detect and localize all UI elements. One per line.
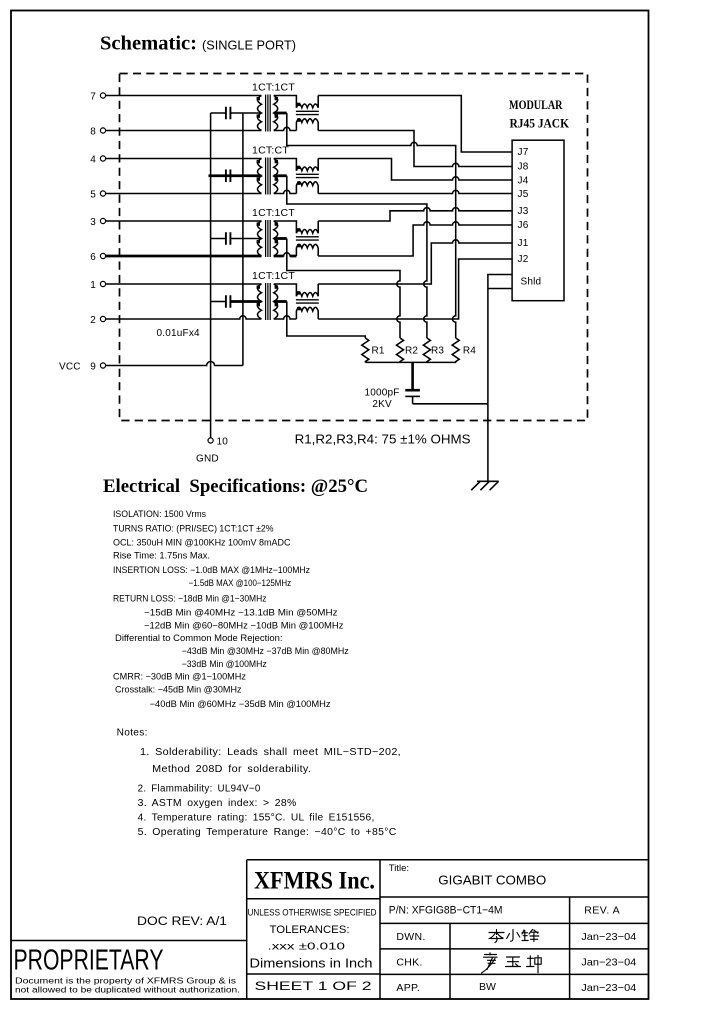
svg-text:−40dB Min @60MHz −35dB Min @10: −40dB Min @60MHz −35dB Min @100MHz	[150, 699, 332, 709]
wire T3 choke top to J3 (hops over CT2,CT1 drops)	[318, 208, 512, 221]
resistor R4	[452, 338, 459, 362]
capacitor C5 1000pF 2KV	[411, 362, 414, 389]
svg-text:PROPRIETARY: PROPRIETARY	[14, 945, 164, 977]
wire CT3 to R2 (hops over T4 top and bottom wires)	[287, 239, 400, 339]
signature CHK (Chinese handwriting)	[482, 953, 542, 973]
svg-text:R1,R2,R3,R4: 75 ±1% OHMS: R1,R2,R3,R4: 75 ±1% OHMS	[295, 432, 471, 447]
svg-text:Rise Time: 1.75ns Max.: Rise Time: 1.75ns Max.	[113, 551, 210, 561]
svg-text:J7: J7	[518, 147, 529, 158]
node CT1: secondary center-tap stub T1 (bold)	[274, 112, 287, 115]
svg-text:CHK.: CHK.	[396, 957, 422, 969]
svg-text:REV. A: REV. A	[584, 905, 620, 917]
resistor R1	[362, 338, 369, 362]
svg-text:1CT:1CT: 1CT:1CT	[252, 83, 295, 94]
capacitor C4 (bold right lead)	[211, 301, 226, 303]
signature DWN (Chinese handwriting)	[489, 930, 539, 943]
svg-text:Electrical Specifications: @2: Electrical Specifications: @25°C	[103, 477, 368, 497]
capacitor C1	[211, 112, 262, 114]
svg-text:Jan−23−04: Jan−23−04	[581, 982, 636, 994]
svg-text:10: 10	[217, 437, 229, 448]
wire pin6 to T3 primary bottom (bold)	[106, 255, 262, 258]
svg-text:7: 7	[90, 91, 96, 102]
svg-text:−15dB Min @40MHz −13.1dB Min @: −15dB Min @40MHz −13.1dB Min @50MHz	[144, 608, 338, 618]
bold overlay T3 secondary bottom lead	[274, 255, 297, 258]
svg-text:0.01uFx4: 0.01uFx4	[157, 328, 201, 339]
svg-text:2. Flammability: UL94V−0: 2. Flammability: UL94V−0	[138, 784, 261, 795]
svg-text:RJ45 JACK: RJ45 JACK	[510, 117, 570, 131]
svg-text:1CT:1CT: 1CT:1CT	[252, 271, 295, 282]
resistor R2	[397, 338, 404, 362]
node CT2: secondary center-tap stub T2 (bold)	[274, 174, 287, 177]
svg-text:R4: R4	[463, 346, 476, 357]
title block frame lines	[247, 860, 649, 1000]
svg-text:UNLESS OTHERWISE SPECIFIED: UNLESS OTHERWISE SPECIFIED	[248, 907, 377, 918]
transformer T2	[257, 158, 319, 195]
svg-text:J2: J2	[518, 254, 529, 265]
wire resistor common bus	[365, 361, 456, 363]
svg-text:Differential to Common Mode Re: Differential to Common Mode Rejection:	[115, 633, 283, 643]
svg-text:1000pF: 1000pF	[364, 388, 399, 399]
svg-text:CMRR: −30dB Min @1−100MHz: CMRR: −30dB Min @1−100MHz	[113, 672, 247, 682]
transformer T1	[257, 95, 319, 132]
svg-text:(SINGLE PORT): (SINGLE PORT)	[202, 39, 296, 53]
wire pin4 to T2 primary top	[106, 158, 262, 160]
svg-text:R1: R1	[372, 346, 385, 357]
svg-text:J3: J3	[518, 206, 529, 217]
svg-text:Shld: Shld	[521, 277, 542, 288]
transformer T3	[257, 220, 319, 257]
wire shield to chassis ground	[487, 404, 489, 482]
svg-text:OCL: 350uH MIN @100KHz 100mV 8: OCL: 350uH MIN @100KHz 100mV 8mADC	[113, 538, 291, 548]
svg-text:J8: J8	[518, 162, 529, 173]
svg-text:−1.5dB MAX @100−125MHz: −1.5dB MAX @100−125MHz	[189, 578, 292, 588]
svg-text:SHEET 1 OF 2: SHEET 1 OF 2	[255, 979, 372, 993]
svg-text:2: 2	[90, 315, 96, 326]
wire CT4 to R1	[287, 302, 366, 339]
schematic dashed boundary box	[120, 74, 588, 421]
svg-text:1CT:CT: 1CT:CT	[252, 146, 289, 157]
wire T3 choke bottom to J6 (hops over CT2,CT1 drops)	[318, 222, 512, 256]
svg-text:Method 208D for solderability.: Method 208D for solderability.	[152, 764, 311, 775]
svg-text:8: 8	[90, 126, 96, 137]
svg-text:ISOLATION: 1500 Vrms: ISOLATION: 1500 Vrms	[113, 509, 206, 519]
svg-text:Notes:: Notes:	[117, 728, 148, 739]
svg-text:6: 6	[90, 252, 96, 263]
svg-text:RETURN LOSS: −18dB Min @1−30MH: RETURN LOSS: −18dB Min @1−30MHz	[113, 594, 267, 604]
wire C5 to shield node	[413, 403, 488, 405]
wire T4 choke top to J1 (hop over CT1 drop)	[318, 240, 512, 284]
chassis ground symbol	[471, 481, 499, 490]
svg-text:MODULAR: MODULAR	[509, 98, 563, 112]
svg-text:9: 9	[90, 362, 96, 373]
svg-text:P/N: XFGIG8B−CT1−4M: P/N: XFGIG8B−CT1−4M	[389, 905, 503, 917]
svg-text:−33dB Min @100MHz: −33dB Min @100MHz	[182, 659, 267, 669]
wire T2 choke top to J4 (hop over CT1 drop)	[318, 159, 512, 181]
wire pin5 to T2 primary bottom	[106, 193, 262, 195]
svg-text:DWN.: DWN.	[396, 931, 425, 943]
wire T1 choke top to J7	[318, 96, 512, 153]
node CT4: secondary center-tap stub T4 (bold)	[274, 300, 287, 303]
svg-text:TURNS RATIO: (PRI/SEC) 1CT:1CT: TURNS RATIO: (PRI/SEC) 1CT:1CT ±2%	[113, 524, 274, 534]
svg-text:3. ASTM oxygen index: > 28%: 3. ASTM oxygen index: > 28%	[138, 798, 297, 809]
svg-text:4. Temperature rating: 155°C.: 4. Temperature rating: 155°C. UL file E1…	[138, 813, 375, 824]
svg-text:Crosstalk: −45dB Min @30MHz: Crosstalk: −45dB Min @30MHz	[115, 685, 242, 695]
wire T4 choke bottom to J2	[318, 259, 512, 319]
svg-text:XFMRS Inc.: XFMRS Inc.	[254, 866, 375, 895]
svg-text:BW: BW	[479, 981, 496, 993]
wire pin8 to T1 primary bottom	[106, 130, 262, 132]
svg-text:5. Operating Temperature Range: 5. Operating Temperature Range: −40°C to…	[138, 827, 397, 838]
svg-text:INSERTION LOSS: −1.0dB MAX @1M: INSERTION LOSS: −1.0dB MAX @1MHz−100MHz	[113, 565, 310, 575]
svg-text:3: 3	[90, 217, 96, 228]
svg-text:.xxx ±0.010: .xxx ±0.010	[268, 941, 346, 953]
svg-text:Jan−23−04: Jan−23−04	[581, 931, 636, 943]
wire pin7 to T1 primary top	[106, 95, 262, 97]
node CT3: secondary center-tap stub T3 (bold)	[274, 237, 287, 240]
wire T2 choke bottom to J5 (hop over CT1 drop)	[318, 190, 512, 193]
svg-text:Document is the property of XF: Document is the property of XFMRS Group …	[15, 977, 236, 986]
pin 10 GND	[208, 438, 213, 443]
vcc bus (right vertical)	[242, 113, 244, 366]
svg-text:J5: J5	[518, 189, 529, 200]
wire pin1 to T4 primary top	[106, 283, 262, 285]
svg-text:Dimensions in Inch: Dimensions in Inch	[250, 956, 373, 970]
svg-text:5: 5	[90, 189, 96, 200]
svg-text:not allowed to be duplicated w: not allowed to be duplicated without aut…	[15, 986, 240, 995]
svg-text:J1: J1	[518, 238, 529, 249]
svg-text:R2: R2	[405, 346, 418, 357]
capacitor C3	[211, 238, 262, 240]
wire CT1 to R4 (hop over J8 drop, hop over T4 bottom wire)	[287, 113, 456, 338]
svg-text:1: 1	[90, 280, 96, 291]
resistor R3	[423, 338, 430, 362]
capacitor C2 (bold lead)	[209, 174, 262, 177]
svg-text:1CT:1CT: 1CT:1CT	[252, 208, 295, 219]
gnd bus (left vertical)	[210, 113, 212, 438]
svg-text:4: 4	[90, 154, 96, 165]
wire pin3 to T3 primary top	[106, 220, 262, 222]
svg-text:−43dB Min @30MHz −37dB Min @80: −43dB Min @30MHz −37dB Min @80MHz	[182, 646, 349, 656]
svg-text:GIGABIT COMBO: GIGABIT COMBO	[438, 874, 546, 888]
svg-text:2KV: 2KV	[372, 399, 392, 410]
svg-text:J4: J4	[518, 175, 529, 186]
wire CT2 to R3 (hops over T4 top and bottom wires)	[287, 176, 427, 338]
svg-text:DOC REV: A/1: DOC REV: A/1	[137, 916, 227, 928]
transformer T4	[257, 283, 319, 320]
svg-text:−12dB Min @60−80MHz −10dB Min: −12dB Min @60−80MHz −10dB Min @100MHz	[144, 621, 344, 631]
wire VCC pin9 to right bus, hop over gnd bus	[106, 362, 243, 366]
wire pin2 to T4 primary bottom	[106, 316, 262, 319]
svg-text:GND: GND	[196, 454, 219, 465]
modular RJ45 jack box	[512, 140, 564, 301]
svg-text:Schematic:: Schematic:	[100, 34, 197, 55]
svg-text:TOLERANCES:: TOLERANCES:	[270, 924, 350, 936]
wire T1 choke bottom to J8 (hop over CT1 drop)	[318, 131, 512, 167]
svg-text:J6: J6	[518, 220, 529, 231]
svg-text:Jan−23−04: Jan−23−04	[581, 957, 636, 969]
svg-text:APP.: APP.	[396, 982, 420, 994]
svg-text:VCC: VCC	[59, 362, 81, 373]
svg-text:R3: R3	[431, 346, 444, 357]
proprietary box	[11, 940, 247, 942]
svg-text:1. Solderability: Leads shall: 1. Solderability: Leads shall meet MIL−S…	[140, 747, 401, 758]
svg-text:Title:: Title:	[389, 863, 409, 874]
wire shield vertical to Shld pins	[488, 275, 512, 404]
